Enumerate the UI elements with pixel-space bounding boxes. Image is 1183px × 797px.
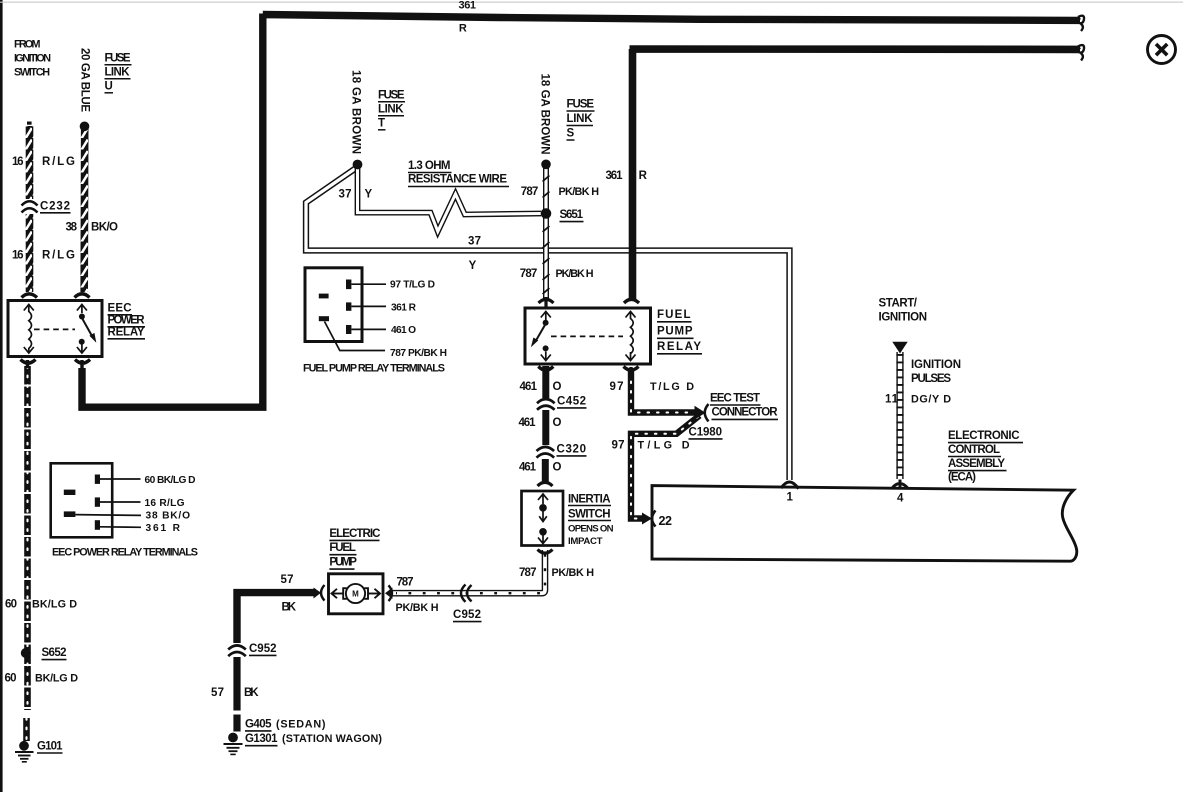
WIRES-HOLLOW (306, 166, 900, 593)
splice S652 (21, 648, 31, 658)
EEC power relay terminals pin labels (52, 475, 198, 559)
wire label 57 BK (vertical) (211, 687, 259, 699)
switch S1 inertia switch label (568, 493, 614, 547)
svg-text:O: O (553, 461, 562, 473)
fuse link S label (567, 99, 595, 141)
scan page left edge (0, 0, 3, 792)
wire 57 BK: C952 to ground G405 (233, 657, 240, 732)
svg-text:787: 787 (519, 567, 537, 579)
WIRES-THICK (82, 14, 1084, 732)
svg-text:37: 37 (339, 189, 352, 201)
svg-text:37: 37 (468, 236, 481, 248)
svg-text:CONNECTOR: CONNECTOR (712, 407, 779, 419)
svg-text:1: 1 (787, 492, 794, 504)
svg-text:M: M (352, 590, 359, 599)
pin 1 arc on ECA (781, 482, 799, 489)
svg-text:S652: S652 (42, 647, 67, 659)
svg-text:O: O (553, 417, 562, 429)
wire label 57 BK (horizontal) (281, 574, 297, 614)
svg-text:787: 787 (397, 576, 414, 588)
svg-text:G405: G405 (245, 718, 272, 730)
svg-text:FUEL: FUEL (329, 542, 356, 554)
svg-text:361 R: 361 R (146, 523, 181, 534)
relay K1 coil-contact dashed link (34, 328, 75, 330)
wire 37 Y long run: fuse link T to ECA pin 1 (306, 167, 790, 480)
close button (1148, 36, 1176, 64)
wire label 97 T/LG D (upper) (610, 381, 695, 393)
svg-text:60: 60 (5, 599, 17, 611)
wire label 787 PK/BK H (below S651) (520, 268, 594, 280)
resistance wire value label (408, 160, 509, 187)
pin chevron: wire 361 R into fuel pump relay (624, 299, 639, 303)
wire label 16 R/LG (upper) (12, 156, 75, 168)
relay K2 fuel pump relay label (657, 309, 702, 354)
connector C320 (537, 447, 555, 458)
connector view: fuel pump relay terminals box (305, 268, 362, 342)
wire 461 O: fuel pump relay to C452 (542, 366, 549, 398)
svg-text:22: 22 (659, 514, 673, 528)
svg-text:S: S (567, 128, 575, 140)
svg-text:BK: BK (244, 687, 259, 699)
svg-text:38: 38 (66, 222, 78, 234)
start/ignition source triangle (892, 342, 907, 354)
node: from ignition switch label (14, 39, 51, 79)
svg-text:IGNITION: IGNITION (911, 359, 961, 371)
svg-text:16: 16 (12, 156, 24, 168)
pin chevron: wire 16 R/LG into EEC power relay (22, 294, 38, 298)
svg-text:Y: Y (469, 260, 477, 272)
svg-text:POWER: POWER (108, 315, 146, 327)
wire 60 BK/LG D: EEC power relay to ground G101 (27, 366, 28, 741)
svg-text:BK: BK (282, 602, 297, 614)
svg-text:IMPACT: IMPACT (568, 536, 603, 547)
node: fuse link T terminal dot (353, 160, 363, 170)
svg-text:EEC: EEC (108, 303, 132, 315)
svg-text:LINK: LINK (105, 67, 131, 79)
relay K2 fuel pump relay box (525, 308, 651, 364)
WIRES-STRIPED (27, 122, 89, 293)
svg-text:Y: Y (365, 189, 373, 201)
connector half: wire 57 BK into electric fuel pump (314, 585, 325, 601)
ECA electronic control assembly box (652, 486, 1077, 562)
wire 11 DG/Y D ignition pulses ladder (896, 352, 903, 479)
connector C952 label (pump feed) (453, 609, 482, 622)
wire label 787 PK/BK H (above S651) (521, 186, 599, 198)
connector view: EEC power relay terminals box (51, 463, 112, 537)
svg-text:FUEL PUMP RELAY TERMINALS: FUEL PUMP RELAY TERMINALS (303, 363, 445, 375)
connector: EEC test connector arrow (C1980) (695, 404, 709, 421)
connector C952 label (ground leg) (249, 643, 277, 656)
node: start/ignition source label (879, 298, 928, 324)
svg-text:EEC POWER RELAY TERMINALS: EEC POWER RELAY TERMINALS (52, 547, 198, 559)
wire cut hook top right (361 R) (1078, 16, 1084, 31)
wire label 16 R/LG (lower) (12, 250, 75, 262)
svg-text:57: 57 (211, 687, 224, 699)
svg-text:ASSEMBLY: ASSEMBLY (948, 458, 1005, 470)
wire cut hook right (361 R lower) (1078, 45, 1084, 60)
ECA label (948, 430, 1023, 484)
ground G101 (15, 741, 34, 762)
svg-text:60 BK/LG D: 60 BK/LG D (145, 475, 196, 486)
svg-text:16 R/LG: 16 R/LG (145, 498, 185, 509)
wire 97 T/LG D: fuel pump relay to EEC test connector (631, 368, 697, 413)
relay K1 coil (24, 305, 34, 354)
svg-text:BK/O: BK/O (91, 222, 118, 234)
relay K2 coil (626, 312, 636, 361)
BOXES (8, 268, 1077, 614)
svg-text:461: 461 (519, 461, 537, 473)
svg-text:C320: C320 (557, 443, 587, 455)
svg-text:G1301: G1301 (245, 733, 278, 745)
svg-text:G101: G101 (37, 741, 63, 753)
svg-text:787 PK/BK H: 787 PK/BK H (390, 348, 447, 359)
svg-text:C952: C952 (453, 609, 481, 621)
fuse link U label (105, 53, 132, 93)
relay K1 switch contact (77, 305, 96, 354)
svg-text:C952: C952 (249, 643, 277, 655)
wire 361 R: branch to fuel pump relay and off-page right (630, 49, 1081, 299)
relay K1 EEC power relay box (8, 301, 102, 357)
connector C232 (22, 201, 38, 212)
switch S1 inertia switch box (522, 491, 564, 546)
svg-text:EEC TEST: EEC TEST (710, 393, 760, 405)
svg-text:C1980: C1980 (689, 426, 723, 438)
connector: ECA pin 22 entry (642, 511, 656, 527)
svg-text:S651: S651 (560, 209, 584, 221)
svg-text:BK/LG D: BK/LG D (32, 599, 77, 611)
WIRES-DOTTED (27, 366, 700, 741)
connector C952 (pump ground leg) (228, 645, 246, 656)
svg-text:OPENS ON: OPENS ON (568, 523, 614, 534)
node: fuse link S terminal dot (541, 160, 551, 170)
connector C452 label (557, 395, 587, 408)
svg-text:1.3 OHM: 1.3 OHM (408, 160, 451, 172)
wire label 361 R (mid) (606, 170, 648, 182)
svg-text:461: 461 (519, 417, 537, 429)
svg-text:R/LG: R/LG (42, 250, 75, 262)
svg-text:SWITCH: SWITCH (14, 67, 50, 79)
svg-text:FUEL: FUEL (657, 309, 691, 321)
pin 4 chevron on ECA (893, 480, 908, 489)
wire 361 R: EEC power relay output to top edge run off-page (82, 14, 1080, 408)
svg-text:PK/BK H: PK/BK H (559, 186, 600, 198)
node: fuse link U terminal dot (80, 122, 90, 132)
pin chevron: fuel pump relay to wire 461 O (538, 367, 553, 376)
splice S651 (541, 208, 552, 219)
svg-text:PK/BK H: PK/BK H (396, 602, 439, 614)
pin chevron: EEC power relay to wire 60 BK/LG D (21, 360, 36, 369)
wire label 461 O (2) (519, 417, 562, 429)
svg-text:18 GA BROWN: 18 GA BROWN (349, 70, 361, 154)
connector C1980 label (689, 426, 723, 439)
wire label 787 PK/BK H (at pump) (396, 576, 439, 614)
svg-text:RELAY: RELAY (657, 341, 701, 353)
svg-text:ELECTRIC: ELECTRIC (329, 528, 380, 540)
svg-text:LINK: LINK (567, 113, 594, 125)
svg-text:57: 57 (281, 574, 294, 586)
ground G101 label (37, 741, 63, 754)
svg-text:461 O: 461 O (391, 325, 416, 336)
motor M1 symbol (332, 584, 381, 603)
wire 38 BK/O: fuse link U to EEC power relay (80, 129, 88, 292)
svg-text:U: U (105, 81, 113, 93)
svg-text:FUSE: FUSE (567, 99, 595, 111)
wire label 60 BK/LG D (lower) (5, 673, 79, 685)
wire label 461 O (1) (520, 381, 562, 393)
svg-text:361 R: 361 R (391, 302, 417, 313)
svg-text:BK/LG D: BK/LG D (35, 673, 78, 685)
motor M1 electric fuel pump label (329, 528, 380, 569)
wire label 787 PK/BK H (inertia leg) (519, 567, 594, 579)
wire label 37 Y (upper) (339, 189, 373, 201)
wire 16 R/LG: C232 to EEC power relay (26, 214, 34, 292)
ground G1301 label (245, 733, 382, 746)
net 361 top labels (459, 0, 477, 34)
pin chevron: fuel pump relay to wire 97 T/LG D (624, 367, 639, 377)
svg-text:RESISTANCE WIRE: RESISTANCE WIRE (408, 174, 507, 186)
svg-text:97 T/LG D: 97 T/LG D (390, 279, 435, 290)
svg-text:(ECA): (ECA) (948, 472, 976, 484)
motor M1 electric fuel pump box (329, 574, 384, 614)
svg-text:PUMP: PUMP (657, 326, 693, 338)
pin chevron: wire 461 O into inertia switch (538, 482, 553, 486)
pin chevron: inertia switch to wire 787 (538, 550, 553, 554)
svg-text:CONTROL: CONTROL (948, 444, 1000, 456)
ground G405 label (245, 718, 326, 731)
CONNECTORS (15, 160, 908, 762)
svg-text:361: 361 (459, 0, 477, 11)
svg-text:C452: C452 (557, 395, 586, 407)
svg-text:SWITCH: SWITCH (568, 508, 611, 520)
switch S1 contacts (538, 494, 548, 544)
svg-text:FUSE: FUSE (105, 53, 131, 65)
connector half: wire 787 into electric fuel pump (385, 585, 393, 601)
fuse link T label (378, 90, 405, 130)
relay K2 coil-contact dashed link (551, 335, 623, 337)
wire label ignition pulses 11 DG/Y D (885, 359, 961, 405)
EEC test connector label (710, 393, 778, 420)
svg-text:T: T (378, 118, 385, 130)
faint top rule (0, 2, 1183, 3)
pin chevron: wire 38 BK/O into EEC power relay (75, 294, 90, 298)
svg-text:787: 787 (521, 186, 539, 198)
wire label 461 O (3) (519, 461, 562, 473)
svg-text:461: 461 (520, 381, 538, 393)
svg-text:4: 4 (897, 493, 904, 505)
svg-text:20 GA BLUE: 20 GA BLUE (78, 48, 90, 112)
connector C320 label (557, 443, 587, 456)
pin chevron: EEC power relay to wire 361 R (75, 360, 90, 370)
svg-text:R/LG: R/LG (42, 156, 75, 168)
wire 461 O: C452 to C320 (542, 410, 549, 445)
svg-text:PK/BK H: PK/BK H (556, 268, 594, 280)
connector C232 label (40, 201, 71, 213)
svg-text:INERTIA: INERTIA (568, 493, 611, 505)
svg-text:IGNITION: IGNITION (14, 53, 51, 65)
svg-text:11: 11 (885, 393, 899, 405)
svg-text:(SEDAN): (SEDAN) (276, 718, 326, 730)
svg-text:PUMP: PUMP (329, 557, 357, 569)
svg-text:38 BK/O: 38 BK/O (146, 511, 191, 522)
wire 787 PK/BK H: fuse link S through S651 to fuel pump relay (543, 168, 550, 300)
svg-text:IGNITION: IGNITION (879, 311, 928, 323)
svg-text:R: R (459, 22, 467, 34)
svg-text:FUSE: FUSE (378, 90, 405, 102)
svg-text:C232: C232 (40, 201, 70, 213)
node: wire 16 R/LG top tick (27, 122, 32, 125)
splice S651 label (560, 209, 584, 222)
svg-text:LINK: LINK (378, 104, 404, 116)
wire label 37 Y (long run) (468, 236, 481, 272)
svg-text:FROM: FROM (14, 39, 41, 51)
svg-text:START/: START/ (879, 298, 918, 310)
svg-text:18 GA BROWN: 18 GA BROWN (538, 74, 550, 155)
relay K1 EEC power relay label (108, 303, 146, 339)
svg-text:RELAY: RELAY (108, 327, 145, 339)
connector C452 (537, 399, 555, 410)
wire label 38 BK/O (66, 222, 119, 234)
svg-text:16: 16 (12, 250, 24, 262)
wire 16 R/LG: from ignition switch to C232 (26, 126, 34, 199)
pin chevron: wire 787 into fuel pump relay (539, 297, 554, 307)
svg-text:ELECTRONIC: ELECTRONIC (948, 430, 1020, 442)
svg-text:DG/Y D: DG/Y D (911, 393, 951, 405)
connector C952 (pump feed) (461, 585, 472, 602)
svg-text:PULSES: PULSES (911, 373, 951, 385)
splice S652 label (42, 647, 67, 660)
svg-text:361: 361 (606, 170, 624, 182)
relay K2 switch contact (531, 312, 551, 361)
wire 37 Y branch through 1.3 ohm resistance wire to S651 (358, 166, 542, 232)
svg-text:O: O (553, 381, 562, 393)
svg-text:787: 787 (520, 268, 538, 280)
wire label 60 BK/LG D (upper) (5, 599, 77, 611)
wire 461 O: C320 to inertia switch (542, 459, 549, 484)
svg-text:97: 97 (612, 440, 625, 452)
svg-text:(STATION WAGON): (STATION WAGON) (282, 733, 382, 745)
wire 787 PK/BK H: inertia switch to electric fuel pump (392, 550, 545, 593)
ground G405 / G1301 (224, 733, 243, 755)
svg-text:97: 97 (610, 381, 624, 393)
wire 57 BK: electric fuel pump to C952 (237, 593, 316, 643)
svg-text:PK/BK H: PK/BK H (552, 567, 595, 579)
svg-text:R: R (639, 170, 648, 182)
svg-text:60: 60 (5, 673, 17, 685)
wire 97 T/LG D: C1980 branch to ECA pin 22 (631, 416, 700, 519)
wire label 97 T/LG D (lower) (612, 440, 690, 452)
fuel pump relay terminals pin labels (303, 279, 447, 374)
